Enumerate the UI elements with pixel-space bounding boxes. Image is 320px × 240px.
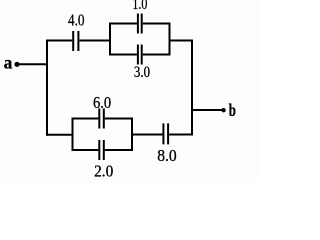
capacitor C=1.0: [138, 14, 142, 34]
node: bottom parallel box left edge: [72, 118, 74, 151]
svg-text:b: b: [229, 100, 236, 120]
wire: bottom box bottom rail left: [72, 149, 99, 151]
capacitor C=4.0: [73, 31, 78, 51]
svg-text:8.0: 8.0: [157, 146, 177, 165]
capacitor C=3.0: [138, 45, 142, 65]
svg-text:3.0: 3.0: [134, 64, 150, 81]
svg-text:4.0: 4.0: [68, 10, 85, 29]
node: top parallel box right edge: [169, 23, 171, 56]
svg-text:2.0: 2.0: [94, 162, 113, 181]
wire: bottom branch left segment: [46, 134, 74, 136]
svg-text:a: a: [4, 52, 13, 72]
wire: top branch right segment: [79, 40, 110, 42]
svg-text:6.0: 6.0: [93, 93, 111, 112]
capacitor C=2.0: [99, 140, 104, 160]
wire: bottom box top rail right: [105, 118, 133, 120]
capacitor C=6.0: [99, 109, 104, 129]
terminal a dot: [14, 62, 19, 67]
node: bottom parallel box right edge: [131, 118, 133, 151]
wire: right vertical bus: [191, 40, 193, 136]
svg-text:1.0: 1.0: [132, 0, 147, 13]
wire: top branch left segment: [46, 40, 72, 42]
wire: top box bottom rail right: [143, 54, 171, 56]
terminal b dot: [221, 108, 225, 112]
node: top parallel box left edge: [109, 23, 111, 56]
wire: terminal b lead: [192, 109, 222, 111]
wire: bottom box bottom rail right: [105, 149, 133, 151]
capacitor C=8.0: [163, 123, 168, 144]
wire: terminal a lead: [17, 63, 47, 65]
wire: bottom box top rail left: [72, 118, 99, 120]
wire: bottom branch middle segment: [132, 134, 162, 136]
wire: top box top rail left: [109, 23, 137, 25]
wire: top box bottom rail left: [109, 54, 137, 56]
wire: top branch exit to right bus: [170, 40, 194, 42]
wire: left vertical bus: [46, 40, 48, 136]
wire: top box top rail right: [143, 23, 171, 25]
wire: bottom branch right segment: [169, 134, 193, 136]
